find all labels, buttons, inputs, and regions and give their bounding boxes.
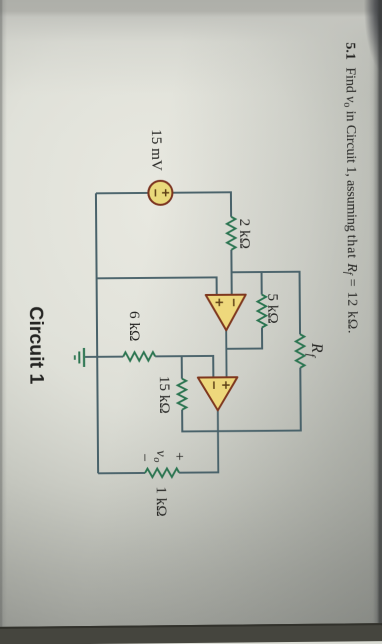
- svg-text:15 kΩ: 15 kΩ: [156, 376, 173, 414]
- svg-text:5 kΩ: 5 kΩ: [264, 293, 281, 323]
- svg-text:−: −: [136, 453, 152, 462]
- svg-text:Circuit 1: Circuit 1: [25, 306, 48, 384]
- svg-text:2 kΩ: 2 kΩ: [236, 219, 253, 249]
- svg-text:+: +: [171, 452, 187, 461]
- svg-text:5.1 Find vo in Circuit 1, assu: 5.1 Find vo in Circuit 1, assuming that …: [341, 42, 360, 334]
- svg-text:o: o: [151, 457, 162, 462]
- svg-text:f: f: [305, 354, 317, 359]
- svg-text:15 mV: 15 mV: [148, 129, 165, 171]
- svg-text:1 kΩ: 1 kΩ: [153, 486, 170, 516]
- svg-text:R: R: [308, 342, 325, 353]
- svg-text:v: v: [153, 450, 168, 457]
- svg-text:6 kΩ: 6 kΩ: [126, 311, 143, 341]
